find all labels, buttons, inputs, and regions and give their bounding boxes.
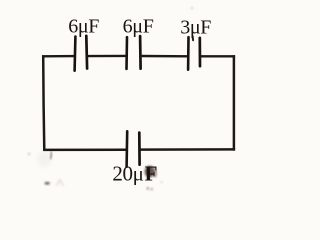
stray tick above C3 plates — [192, 36, 195, 40]
svg-text:6μF: 6μF — [68, 15, 99, 37]
capacitor C4 20uF right plate — [138, 133, 141, 165]
wire: right vertical side — [233, 55, 236, 150]
capacitor C2 6uF right plate — [139, 36, 142, 69]
label 3uF (C3) — [180, 16, 211, 38]
capacitor C4 20uF left plate — [125, 131, 128, 166]
capacitor C1 6uF left plate — [73, 37, 76, 71]
wire: top-left segment to C1 — [42, 55, 75, 58]
label 6uF (C1) — [68, 15, 99, 37]
label 20uF (C4) — [112, 162, 157, 186]
faint scan smudges (decorative) — [28, 7, 193, 190]
capacitor C3 3uF left plate — [187, 37, 190, 69]
capacitor C1 6uF right plate — [85, 36, 88, 69]
wire: C3 to top-right corner — [200, 55, 235, 57]
svg-text:3μF: 3μF — [180, 16, 211, 38]
wire: bottom-left segment to C4 — [43, 149, 126, 152]
label 6uF (C2) — [123, 15, 154, 37]
svg-text:6μF: 6μF — [123, 15, 154, 37]
wire: between C1 and C2 — [87, 55, 127, 58]
wire: C4 to bottom-right corner — [140, 148, 235, 151]
wire: between C2 and C3 — [140, 55, 188, 58]
svg-text:20μ: 20μ — [112, 162, 143, 186]
capacitor C2 6uF left plate — [125, 37, 128, 69]
paper background — [0, 0, 263, 201]
wire: left vertical side — [43, 55, 44, 151]
capacitor C3 3uF right plate — [198, 38, 201, 66]
